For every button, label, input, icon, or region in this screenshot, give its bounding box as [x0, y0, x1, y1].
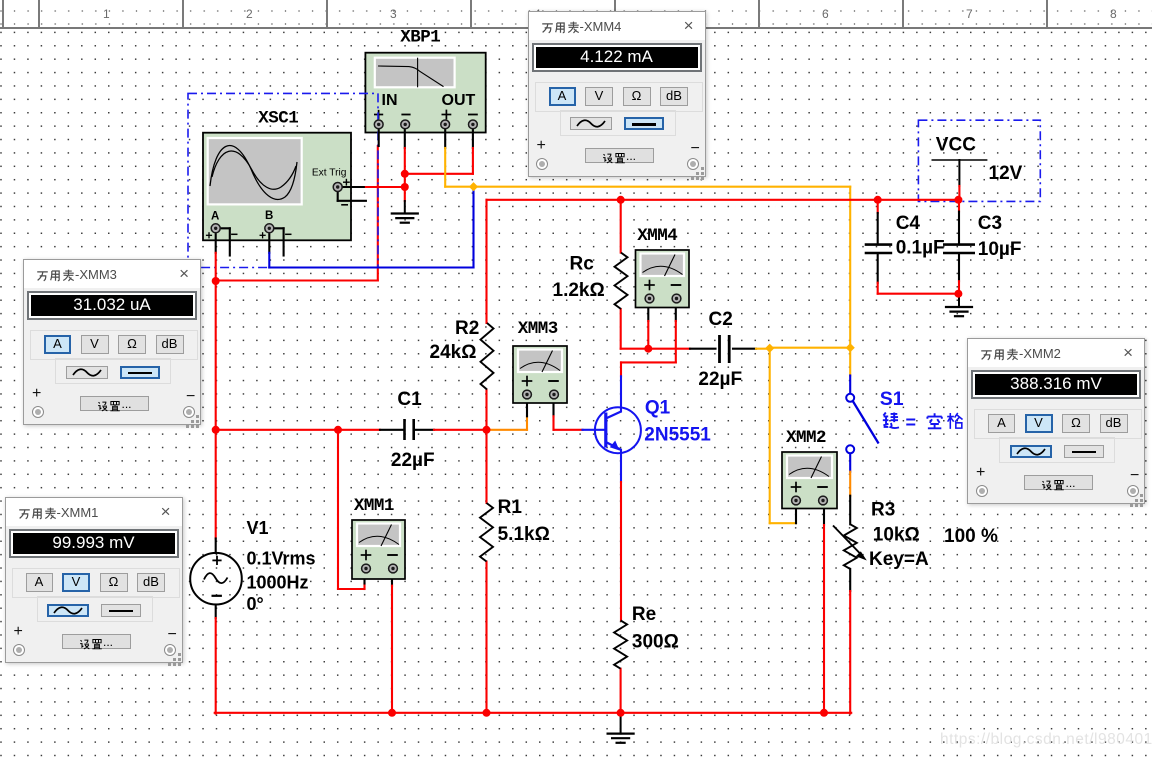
svg-text:R1: R1 [498, 497, 523, 518]
svg-text:A: A [211, 211, 219, 223]
svg-text:XMM3: XMM3 [518, 319, 558, 339]
svg-text:R2: R2 [455, 318, 479, 339]
svg-text:S1: S1 [880, 388, 904, 410]
svg-text:Re: Re [632, 604, 656, 625]
svg-text:XMM1: XMM1 [354, 496, 394, 516]
svg-text:C3: C3 [978, 213, 1002, 234]
svg-text:C4: C4 [896, 213, 921, 234]
svg-text:OUT: OUT [442, 92, 476, 109]
svg-text:B: B [265, 210, 273, 222]
svg-text:0.1Vrms: 0.1Vrms [247, 549, 316, 569]
svg-text:10µF: 10µF [978, 239, 1022, 260]
svg-text:XSC1: XSC1 [258, 109, 298, 129]
svg-text:R3: R3 [871, 500, 895, 521]
svg-text:1000Hz: 1000Hz [247, 573, 309, 593]
svg-text:300Ω: 300Ω [632, 632, 679, 653]
svg-text:IN: IN [382, 92, 398, 109]
svg-text:0.1µF: 0.1µF [896, 238, 945, 259]
svg-text:100 %: 100 % [944, 526, 998, 547]
svg-text:XMM4: XMM4 [637, 226, 677, 246]
svg-text:2N5551: 2N5551 [644, 425, 711, 446]
svg-text:24kΩ: 24kΩ [430, 342, 477, 363]
svg-text:XBP1: XBP1 [400, 28, 440, 48]
svg-text:10kΩ: 10kΩ [873, 525, 920, 546]
svg-text:Ext Trig: Ext Trig [312, 167, 347, 178]
svg-text:C1: C1 [397, 389, 422, 410]
svg-text:1.2kΩ: 1.2kΩ [553, 280, 605, 301]
svg-text:12V: 12V [989, 163, 1023, 184]
svg-text:C2: C2 [709, 309, 733, 330]
svg-text:5.1kΩ: 5.1kΩ [498, 524, 550, 545]
svg-text:0°: 0° [247, 594, 264, 614]
svg-text:22µF: 22µF [391, 450, 435, 471]
svg-text:=: = [906, 412, 917, 432]
svg-text:V1: V1 [247, 518, 269, 538]
svg-text:XMM2: XMM2 [786, 428, 826, 448]
svg-text:VCC: VCC [936, 135, 976, 156]
svg-text:Rc: Rc [570, 254, 595, 275]
svg-text:Q1: Q1 [645, 398, 671, 419]
svg-text:22µF: 22µF [698, 369, 742, 390]
svg-text:Key=A: Key=A [869, 549, 929, 570]
